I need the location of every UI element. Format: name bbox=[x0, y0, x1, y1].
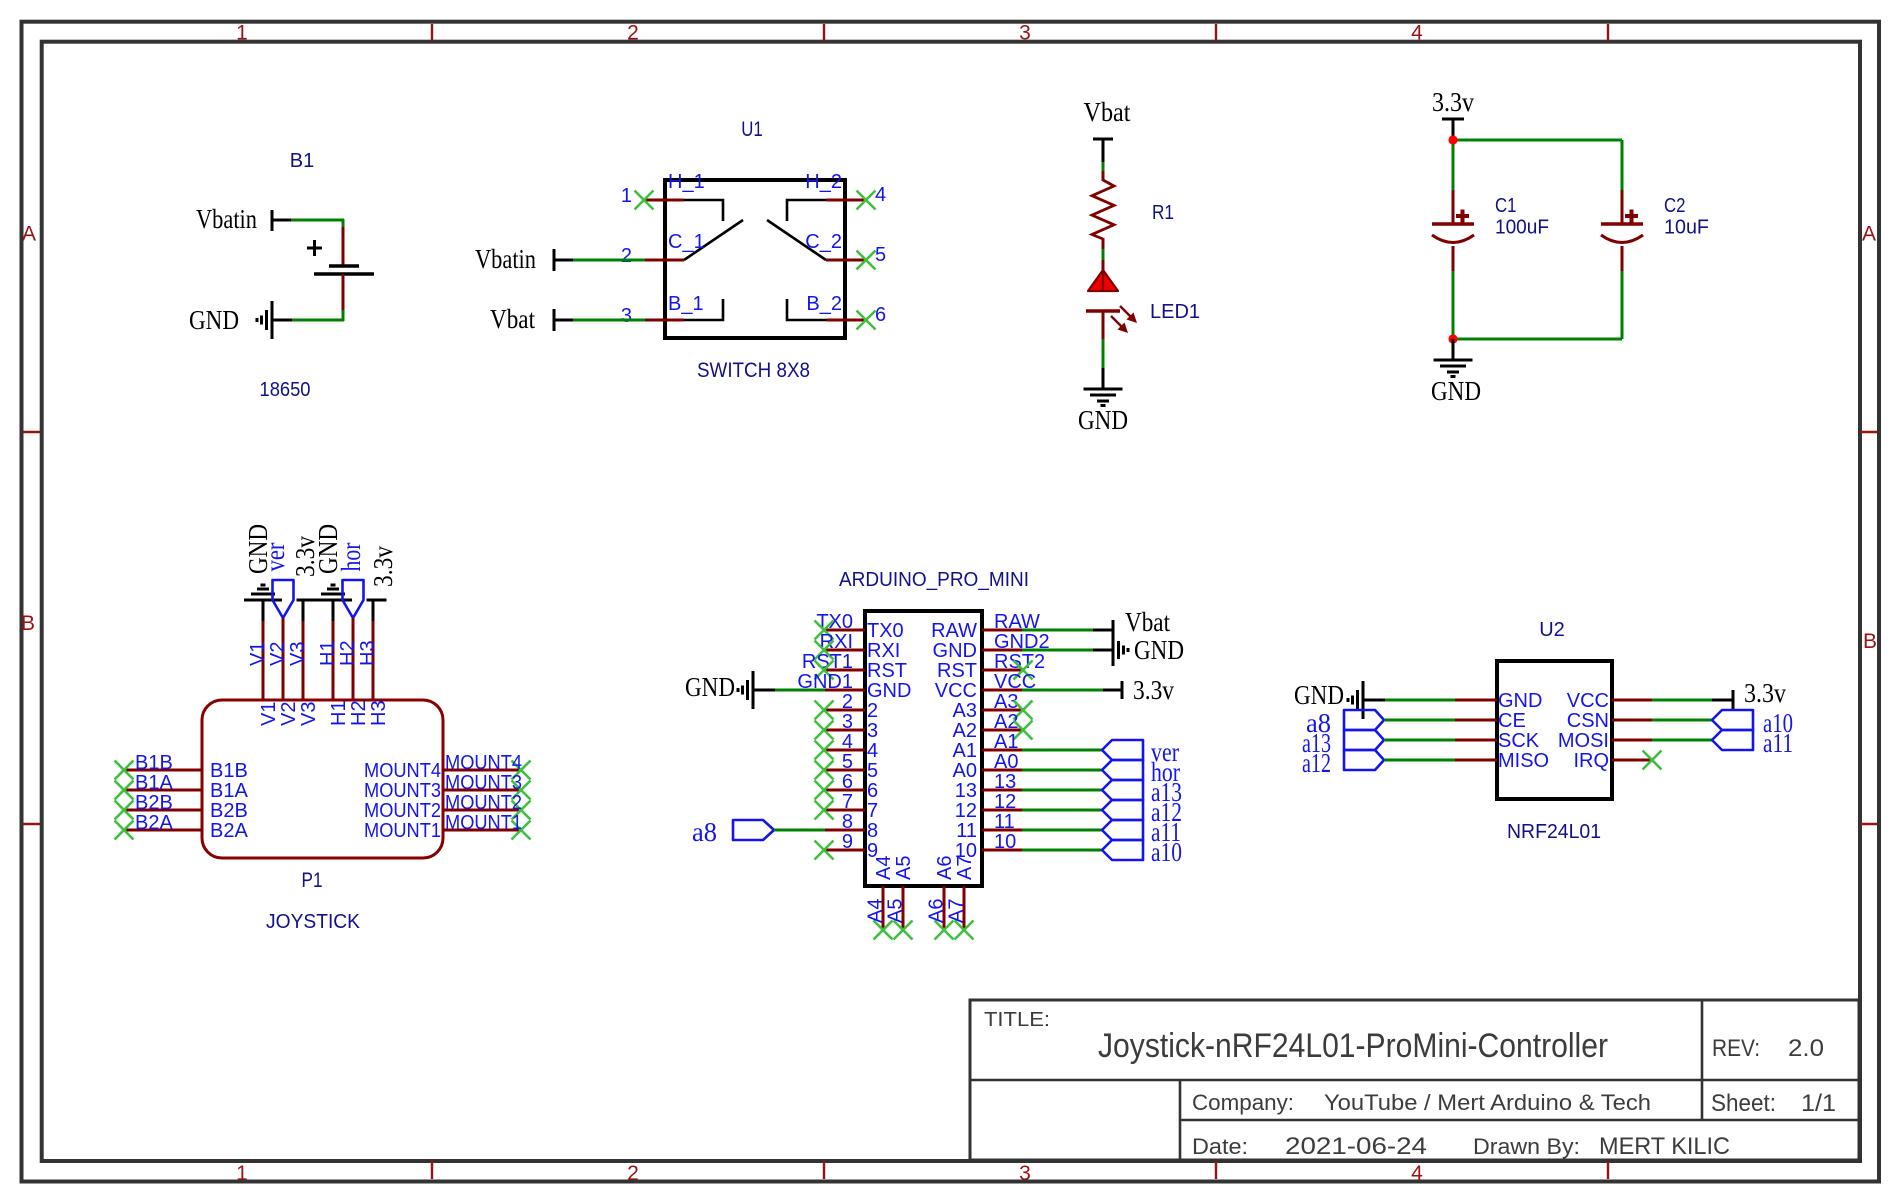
svg-text:4: 4 bbox=[842, 731, 853, 753]
svg-text:TX0: TX0 bbox=[816, 611, 853, 633]
svg-text:ver: ver bbox=[260, 543, 290, 572]
svg-text:2.0: 2.0 bbox=[1788, 1035, 1824, 1062]
svg-text:V2: V2 bbox=[267, 642, 289, 666]
svg-text:Vbat: Vbat bbox=[490, 304, 535, 334]
svg-text:TX0: TX0 bbox=[867, 620, 904, 642]
svg-text:GND: GND bbox=[189, 305, 239, 335]
svg-text:REV:: REV: bbox=[1712, 1035, 1760, 1062]
svg-text:C_1: C_1 bbox=[668, 231, 705, 253]
svg-text:B2B: B2B bbox=[135, 792, 173, 814]
svg-text:11: 11 bbox=[994, 811, 1015, 833]
svg-text:H1: H1 bbox=[317, 640, 339, 666]
svg-text:11: 11 bbox=[956, 820, 977, 842]
svg-text:MOUNT3: MOUNT3 bbox=[445, 772, 522, 794]
svg-text:4: 4 bbox=[1411, 22, 1423, 45]
svg-text:B2A: B2A bbox=[210, 820, 248, 842]
svg-text:RST2: RST2 bbox=[994, 651, 1045, 673]
svg-text:ARDUINO_PRO_MINI: ARDUINO_PRO_MINI bbox=[839, 569, 1029, 591]
svg-text:a8: a8 bbox=[692, 817, 717, 847]
svg-text:A4: A4 bbox=[865, 899, 887, 923]
svg-text:A2: A2 bbox=[953, 720, 977, 742]
svg-text:B1B: B1B bbox=[135, 752, 173, 774]
svg-text:Company:: Company: bbox=[1192, 1090, 1294, 1115]
svg-text:A: A bbox=[1862, 223, 1876, 246]
svg-text:Vbatin: Vbatin bbox=[475, 244, 536, 274]
svg-text:A6: A6 bbox=[934, 856, 956, 880]
svg-text:A7: A7 bbox=[946, 899, 968, 923]
svg-text:IRQ: IRQ bbox=[1573, 750, 1609, 772]
svg-text:MOUNT4: MOUNT4 bbox=[364, 760, 441, 782]
svg-text:Vbat: Vbat bbox=[1084, 97, 1131, 127]
svg-text:B1: B1 bbox=[290, 150, 314, 172]
svg-text:a10: a10 bbox=[1151, 837, 1182, 867]
svg-text:A1: A1 bbox=[953, 740, 977, 762]
svg-text:V3: V3 bbox=[287, 642, 309, 666]
svg-text:SWITCH 8X8: SWITCH 8X8 bbox=[697, 359, 810, 382]
svg-text:3.3v: 3.3v bbox=[1744, 678, 1786, 708]
svg-text:B1A: B1A bbox=[210, 780, 248, 802]
svg-text:B1A: B1A bbox=[135, 772, 173, 794]
svg-text:B: B bbox=[1863, 630, 1877, 653]
svg-text:V3: V3 bbox=[298, 702, 320, 726]
svg-text:MISO: MISO bbox=[1498, 750, 1549, 772]
svg-text:CSN: CSN bbox=[1567, 710, 1609, 732]
svg-text:B1B: B1B bbox=[210, 760, 248, 782]
svg-text:V2: V2 bbox=[278, 702, 300, 726]
svg-text:B2B: B2B bbox=[210, 800, 248, 822]
svg-text:GND: GND bbox=[1134, 635, 1184, 665]
svg-text:GND: GND bbox=[1431, 376, 1481, 406]
svg-text:Vbat: Vbat bbox=[1125, 607, 1170, 637]
svg-text:H2: H2 bbox=[348, 700, 370, 726]
svg-text:C_2: C_2 bbox=[805, 231, 842, 253]
svg-text:a12: a12 bbox=[1302, 748, 1331, 778]
svg-text:H3: H3 bbox=[368, 700, 390, 726]
svg-text:Vbatin: Vbatin bbox=[196, 204, 257, 234]
svg-text:10: 10 bbox=[994, 831, 1016, 853]
svg-text:A1: A1 bbox=[994, 731, 1018, 753]
svg-text:MOUNT1: MOUNT1 bbox=[445, 812, 522, 834]
svg-text:13: 13 bbox=[994, 771, 1016, 793]
svg-text:5: 5 bbox=[842, 751, 853, 773]
svg-text:RST: RST bbox=[867, 660, 907, 682]
svg-text:2: 2 bbox=[621, 245, 632, 267]
svg-text:10uF: 10uF bbox=[1664, 217, 1709, 239]
svg-text:MERT KILIC: MERT KILIC bbox=[1599, 1133, 1730, 1160]
svg-text:12: 12 bbox=[994, 791, 1016, 813]
svg-text:GND: GND bbox=[1498, 690, 1542, 712]
svg-text:H_1: H_1 bbox=[668, 171, 705, 193]
svg-text:B: B bbox=[21, 612, 35, 635]
svg-text:A5: A5 bbox=[885, 899, 907, 923]
svg-text:4: 4 bbox=[1411, 1162, 1423, 1185]
svg-text:RST: RST bbox=[937, 660, 977, 682]
svg-text:GND: GND bbox=[1294, 680, 1344, 710]
svg-text:18650: 18650 bbox=[260, 379, 311, 401]
svg-text:Date:: Date: bbox=[1192, 1134, 1248, 1159]
svg-text:1: 1 bbox=[236, 22, 248, 45]
svg-text:3.3v: 3.3v bbox=[1133, 675, 1174, 705]
svg-text:A5: A5 bbox=[893, 856, 915, 880]
svg-text:5: 5 bbox=[875, 244, 886, 266]
svg-text:CE: CE bbox=[1498, 710, 1526, 732]
svg-text:Joystick-nRF24L01-ProMini-Cont: Joystick-nRF24L01-ProMini-Controller bbox=[1098, 1027, 1608, 1065]
svg-text:3: 3 bbox=[1019, 1162, 1031, 1185]
svg-text:A4: A4 bbox=[873, 856, 895, 880]
svg-text:2: 2 bbox=[627, 1162, 639, 1185]
svg-text:RXI: RXI bbox=[867, 640, 900, 662]
svg-text:3.3v: 3.3v bbox=[368, 546, 398, 587]
svg-text:Drawn By:: Drawn By: bbox=[1473, 1134, 1580, 1159]
svg-text:2: 2 bbox=[627, 22, 639, 45]
svg-text:U1: U1 bbox=[741, 118, 763, 141]
svg-text:3: 3 bbox=[1019, 22, 1031, 45]
svg-text:2: 2 bbox=[842, 691, 853, 713]
svg-text:VCC: VCC bbox=[935, 680, 977, 702]
svg-text:MOUNT2: MOUNT2 bbox=[445, 792, 522, 814]
svg-text:7: 7 bbox=[842, 791, 853, 813]
svg-text:hor: hor bbox=[336, 543, 366, 572]
svg-text:4: 4 bbox=[875, 184, 886, 206]
svg-text:12: 12 bbox=[955, 800, 977, 822]
svg-text:MOSI: MOSI bbox=[1558, 730, 1609, 752]
svg-text:A6: A6 bbox=[926, 899, 948, 923]
svg-text:GND: GND bbox=[685, 672, 735, 702]
svg-text:C2: C2 bbox=[1664, 195, 1686, 217]
svg-text:1/1: 1/1 bbox=[1801, 1090, 1836, 1117]
svg-text:B2A: B2A bbox=[135, 812, 173, 834]
svg-text:GND: GND bbox=[867, 680, 911, 702]
svg-text:4: 4 bbox=[867, 740, 878, 762]
svg-text:NRF24L01: NRF24L01 bbox=[1507, 821, 1601, 843]
svg-text:3: 3 bbox=[621, 305, 632, 327]
svg-text:V1: V1 bbox=[258, 702, 280, 726]
svg-text:8: 8 bbox=[842, 811, 853, 833]
svg-text:3: 3 bbox=[867, 720, 878, 742]
svg-text:A3: A3 bbox=[953, 700, 977, 722]
svg-text:6: 6 bbox=[867, 780, 878, 802]
svg-text:3.3v: 3.3v bbox=[1432, 87, 1474, 117]
svg-text:8: 8 bbox=[867, 820, 878, 842]
svg-text:1: 1 bbox=[621, 185, 632, 207]
svg-text:A0: A0 bbox=[994, 751, 1018, 773]
svg-text:LED1: LED1 bbox=[1150, 301, 1200, 323]
svg-text:2: 2 bbox=[867, 700, 878, 722]
svg-text:SCK: SCK bbox=[1498, 730, 1540, 752]
svg-text:YouTube / Mert Arduino & Tech: YouTube / Mert Arduino & Tech bbox=[1324, 1090, 1651, 1115]
svg-text:A: A bbox=[22, 223, 36, 246]
svg-text:9: 9 bbox=[842, 831, 853, 853]
svg-text:2021-06-24: 2021-06-24 bbox=[1285, 1133, 1427, 1160]
svg-text:MOUNT2: MOUNT2 bbox=[364, 800, 441, 822]
svg-text:RAW: RAW bbox=[931, 620, 977, 642]
svg-text:6: 6 bbox=[842, 771, 853, 793]
svg-text:U2: U2 bbox=[1539, 619, 1565, 641]
svg-text:1: 1 bbox=[236, 1162, 248, 1185]
svg-text:5: 5 bbox=[867, 760, 878, 782]
svg-text:GND: GND bbox=[1078, 405, 1128, 435]
svg-text:B_2: B_2 bbox=[806, 293, 842, 315]
svg-text:MOUNT4: MOUNT4 bbox=[445, 752, 522, 774]
svg-text:R1: R1 bbox=[1152, 202, 1174, 224]
svg-text:GND: GND bbox=[933, 640, 977, 662]
svg-text:MOUNT3: MOUNT3 bbox=[364, 780, 441, 802]
svg-text:7: 7 bbox=[867, 800, 878, 822]
svg-text:JOYSTICK: JOYSTICK bbox=[266, 911, 361, 933]
svg-text:H3: H3 bbox=[357, 640, 379, 666]
svg-text:H2: H2 bbox=[337, 640, 359, 666]
svg-text:VCC: VCC bbox=[1567, 690, 1609, 712]
svg-text:13: 13 bbox=[955, 780, 977, 802]
svg-text:RST1: RST1 bbox=[802, 651, 853, 673]
svg-text:A0: A0 bbox=[953, 760, 977, 782]
svg-text:P1: P1 bbox=[302, 869, 323, 892]
svg-text:3: 3 bbox=[842, 711, 853, 733]
svg-text:MOUNT1: MOUNT1 bbox=[364, 820, 441, 842]
svg-text:A7: A7 bbox=[954, 856, 976, 880]
svg-text:TITLE:: TITLE: bbox=[984, 1009, 1050, 1031]
svg-text:V1: V1 bbox=[247, 642, 269, 666]
svg-text:a11: a11 bbox=[1763, 728, 1793, 758]
svg-text:B_1: B_1 bbox=[668, 293, 704, 315]
svg-text:H_2: H_2 bbox=[805, 171, 842, 193]
svg-text:6: 6 bbox=[875, 304, 886, 326]
svg-text:Sheet:: Sheet: bbox=[1711, 1090, 1776, 1117]
svg-text:C1: C1 bbox=[1495, 195, 1517, 217]
svg-text:H1: H1 bbox=[328, 700, 350, 726]
svg-text:100uF: 100uF bbox=[1495, 217, 1549, 239]
